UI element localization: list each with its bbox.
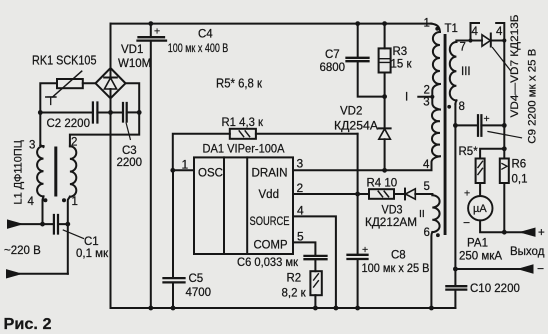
resistor R2 power marks [314, 274, 319, 287]
resistor R5 body [476, 159, 485, 184]
svg-text:4: 4 [297, 204, 304, 218]
thermistor RK1 wires [40, 83, 95, 147]
svg-text:RK1 SCK105: RK1 SCK105 [32, 53, 97, 68]
svg-text:C5: C5 [189, 273, 204, 285]
resistor R2 body [310, 271, 321, 295]
svg-text:С10 2200: С10 2200 [470, 283, 520, 295]
diode VD4 [490, 34, 492, 47]
transformer T1 pins 2,3 stubs [418, 84, 440, 110]
junction L1 pin4 row1 [40, 222, 45, 227]
IC DA1 VIPer-100A box [194, 157, 293, 254]
svg-text:C1: C1 [84, 236, 99, 248]
wire 220V lower line with arrow [20, 273, 68, 275]
svg-text:0,1: 0,1 [512, 174, 528, 186]
junction C3 right AC2 [137, 110, 142, 115]
svg-text:+: + [362, 244, 368, 256]
resistor R6 power mark [502, 164, 507, 170]
junction RK1 left C2 row [38, 110, 43, 115]
wire output plus row with arrow [504, 231, 522, 233]
svg-text:R3: R3 [393, 46, 408, 58]
svg-text:SOURCE: SOURCE [250, 216, 290, 228]
svg-text:1: 1 [424, 18, 430, 30]
wire C1 row [43, 223, 68, 225]
resistor R6 body [500, 159, 509, 184]
junction VD4 bracket left [468, 38, 472, 42]
diode VD3 [404, 189, 406, 200]
svg-text:РА1: РА1 [467, 238, 488, 250]
wire plus vertical right [503, 41, 505, 159]
wire R2 to rail [314, 295, 316, 308]
svg-text:VD3: VD3 [382, 205, 403, 217]
transformer T1 winding II [432, 194, 439, 232]
svg-text:R5* 6,8 к: R5* 6,8 к [216, 77, 262, 91]
svg-text:3: 3 [29, 140, 35, 152]
svg-text:R4 10: R4 10 [367, 178, 398, 190]
resistor R1 wires [173, 134, 358, 171]
junction VD4 bracket right [502, 38, 506, 42]
transformer T1 winding I lower [432, 109, 440, 156]
svg-text:R2: R2 [287, 273, 302, 285]
svg-text:7: 7 [460, 42, 466, 54]
svg-text:100 мк x 400 В: 100 мк x 400 В [168, 43, 229, 55]
svg-text:3: 3 [423, 97, 429, 109]
svg-text:C2 2200: C2 2200 [47, 118, 90, 130]
wire AC2 from bridge right vertex down and left to L1 pin2 [70, 83, 139, 146]
svg-text:+: + [154, 26, 160, 38]
capacitor C8 [357, 194, 359, 308]
svg-text:C6 0,033 мк: C6 0,033 мк [237, 257, 299, 269]
resistor R1 body [230, 129, 256, 139]
wire DRAIN pin3 [293, 156, 440, 170]
winding start dot L1 pin4 [43, 198, 47, 202]
wire bottom ground rail [111, 307, 456, 309]
svg-text:Vdd: Vdd [259, 189, 279, 201]
capacitor C4 [150, 24, 152, 308]
svg-text:L1 ДФ110ПЦ: L1 ДФ110ПЦ [13, 140, 25, 204]
wire OSC pin1 [173, 169, 194, 171]
junction C8 ground rail [355, 306, 360, 311]
svg-text:III: III [461, 66, 471, 78]
svg-text:8,2 к: 8,2 к [282, 288, 307, 300]
winding start dot T1 pin1 [435, 27, 439, 31]
junction C1 right row1 [65, 222, 70, 227]
wire C6 to R2 [314, 260, 316, 271]
wire R1 drop to Vdd node and C8 [357, 134, 359, 194]
svg-text:VD1: VD1 [121, 44, 143, 56]
svg-text:4: 4 [423, 159, 430, 171]
svg-text:R6: R6 [512, 159, 527, 171]
transformer T1 winding III [455, 41, 457, 43]
svg-text:C7: C7 [325, 49, 340, 61]
capacitor C10 [454, 269, 456, 308]
callout C1 [63, 230, 83, 239]
resistor R1 power marks [239, 131, 249, 137]
wire SOURCE pin4 [293, 216, 336, 308]
junction C7 R3 bottom node [382, 94, 387, 99]
svg-text:0,1 мк: 0,1 мк [76, 248, 109, 260]
wire L1 pin4 drop [43, 196, 44, 224]
svg-text:C9 2200 мк x 25 В: C9 2200 мк x 25 В [527, 49, 539, 144]
capacitor C3 plates [123, 103, 127, 122]
svg-text:C8: C8 [391, 250, 406, 262]
svg-text:5: 5 [297, 230, 304, 244]
junction SOURCE ground rail [334, 306, 339, 311]
svg-text:100 мк x 25 В: 100 мк x 25 В [362, 263, 430, 275]
callout VD4 label [493, 48, 511, 71]
callout C3 [126, 123, 131, 141]
svg-text:I: I [405, 92, 408, 104]
svg-text:2: 2 [424, 85, 430, 97]
svg-text:DRAIN: DRAIN [252, 168, 288, 180]
svg-text:4: 4 [496, 26, 503, 38]
svg-text:2: 2 [71, 137, 77, 149]
svg-text:1: 1 [182, 158, 189, 172]
junction PA1 output plus [502, 230, 507, 235]
meter PA1 circle [468, 196, 492, 220]
junction VD2 drain row [382, 168, 387, 173]
wire winding III bottom drop minus line [454, 104, 456, 269]
svg-text:КД212АМ: КД212АМ [365, 217, 417, 229]
junction C9 plus line [502, 123, 507, 128]
IC internal dividers [224, 157, 247, 254]
svg-text:4700: 4700 [186, 287, 212, 299]
svg-text:COMP: COMP [254, 240, 288, 252]
callout C9 label [488, 132, 522, 138]
junction C9 minus line [453, 123, 458, 128]
wire 220V upper line with arrow [20, 223, 43, 225]
svg-text:C3: C3 [122, 145, 137, 157]
svg-text:T: T [47, 94, 55, 108]
svg-text:Выход: Выход [510, 246, 545, 258]
wire C9 row [455, 124, 504, 126]
wire COMP pin5 [293, 242, 315, 255]
winding start dot T1 pin8 [447, 105, 451, 109]
thermistor RK1 strike and T mark [46, 71, 82, 97]
junction C4 top rail [148, 21, 153, 26]
transformer T1 core [444, 34, 447, 235]
svg-text:R1 4,3 к: R1 4,3 к [222, 115, 264, 129]
junction C10 output minus [453, 267, 458, 272]
svg-text:W10M: W10M [118, 58, 151, 70]
svg-text:+: + [538, 227, 545, 239]
resistor R3 wires [384, 24, 386, 97]
wire minus vertical left [110, 98, 112, 308]
junction bridge minus C2C3 row [108, 110, 113, 115]
svg-text:−: − [537, 262, 544, 276]
svg-text:5: 5 [424, 181, 430, 193]
wire bridge plus drop [110, 24, 112, 68]
resistor R3 power marks [380, 59, 390, 63]
resistor R3 body [379, 48, 391, 72]
capacitor C9 plates [478, 115, 481, 136]
svg-text:R5*: R5* [459, 146, 479, 158]
svg-text:3: 3 [297, 157, 304, 171]
svg-text:VD2: VD2 [340, 106, 362, 118]
capacitor C6 plates [305, 256, 327, 259]
diode VD2 [379, 97, 391, 171]
svg-text:+: + [484, 113, 490, 125]
svg-text:1: 1 [72, 196, 78, 208]
junction R5 branch plus line [502, 146, 507, 151]
svg-text:250 мкА: 250 мкА [459, 251, 502, 263]
capacitor C1 plates [54, 215, 58, 234]
wire Vdd pin2 row [293, 193, 432, 195]
bridge VD1 internal diode [104, 70, 117, 98]
svg-text:4: 4 [28, 196, 35, 208]
svg-text:2200: 2200 [117, 157, 143, 169]
svg-text:КД254А: КД254А [334, 121, 378, 133]
svg-text:+: + [464, 188, 470, 200]
inductor L1 right winding [70, 146, 76, 196]
junction Vdd C8 R1 node [355, 192, 360, 197]
junction T1 pins 2 3 stub [430, 95, 434, 99]
transformer T1 winding I upper [431, 24, 440, 32]
svg-text:C4: C4 [198, 29, 213, 41]
svg-text:Рис. 2: Рис. 2 [4, 316, 52, 333]
resistor R4 body [369, 189, 394, 199]
svg-text:OSC: OSC [198, 168, 223, 180]
inductor L1 left winding [37, 146, 43, 196]
wire L1 pin1 drop [68, 197, 70, 274]
winding start dot L1 pin1 [62, 198, 66, 202]
wire R6 bottom [503, 183, 505, 232]
capacitor C2 plates [93, 103, 98, 123]
wire R5 to meter [479, 183, 481, 196]
wire meter bottom to output [480, 220, 504, 232]
thermistor RK1 body [57, 79, 83, 88]
junction R2 ground rail [313, 306, 318, 311]
wire R5 branch [480, 149, 504, 159]
bridge rectifier VD1 diamond [96, 68, 126, 98]
diode VD4 row wire [456, 40, 482, 42]
svg-text:DA1 VIPer-100A: DA1 VIPer-100A [203, 142, 286, 156]
resistor R4 power marks [378, 191, 388, 197]
winding start dot T1 pin6 [436, 233, 440, 237]
svg-text:µА: µА [473, 203, 487, 215]
inductor L1 core [54, 147, 57, 197]
svg-text:~220 В: ~220 В [4, 245, 41, 257]
svg-text:Т1: Т1 [445, 23, 458, 35]
wire top +rail [111, 23, 432, 25]
junction C5 ground rail [171, 306, 176, 311]
wire C2 row [40, 112, 123, 114]
svg-text:II: II [419, 208, 425, 220]
junction C7 top rail [355, 21, 360, 26]
junction R3 top rail [382, 21, 387, 26]
multiplier bracket right [496, 23, 504, 41]
svg-text:15 к: 15 к [391, 59, 413, 71]
multiplier bracket left [471, 23, 480, 41]
wire C3 to AC2 line [127, 111, 140, 113]
resistor R5 power marks [478, 161, 483, 174]
wire output minus row with arrow [455, 268, 520, 270]
junction OSC C5 R1 node [170, 168, 175, 173]
svg-text:6800: 6800 [320, 62, 346, 74]
svg-text:2: 2 [297, 181, 304, 195]
capacitor C7 [358, 24, 385, 97]
svg-text:6: 6 [424, 227, 430, 239]
svg-text:4: 4 [472, 26, 479, 38]
junction C4 ground rail [148, 306, 153, 311]
svg-text:8: 8 [459, 101, 465, 113]
svg-text:VD4—VD7 КД213Б: VD4—VD7 КД213Б [509, 15, 521, 118]
junction T1 pin6 ground rail [429, 306, 434, 311]
svg-text:−: − [463, 216, 470, 230]
capacitor C5 [172, 170, 174, 308]
wire winding II pin6 drop [430, 232, 433, 308]
